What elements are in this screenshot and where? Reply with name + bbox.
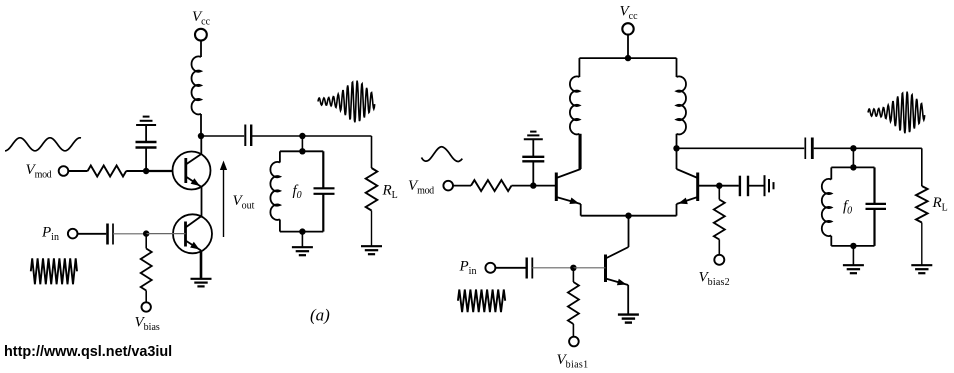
wire collector node to coupling cap C2 [201,135,244,137]
AM output waveform icon (left) [318,81,375,123]
svg-text:Vout: Vout [233,193,255,211]
wire resistor to base node [126,170,146,172]
wire node to tank top [301,136,303,151]
terminal Vcc (left) [195,29,207,41]
wire C2 to tank node [251,135,302,137]
wire tank bottom to ground (right) [852,246,854,265]
wire RL to ground [371,211,373,246]
wire rail node to Q5 collector [628,216,630,247]
terminal Vmod (left) [59,166,69,176]
inverted ground above C1 [136,124,156,126]
node emitter rail [625,213,631,219]
inverted ground above cap (right) [524,138,543,140]
tank inductor (left) [270,162,280,220]
svg-text:Vmod: Vmod [26,162,52,180]
emitter rail wire [581,215,677,217]
wire node to Q2 base [146,233,185,235]
bypass capacitor C1 [145,148,147,172]
wire node to Q5 base [573,267,605,269]
tank right side wire (right) [873,167,875,204]
svg-text:Vcc: Vcc [192,9,211,27]
node base Q1 [143,168,149,174]
transistor Q3 (diff pair left) [555,173,558,202]
resistor to Vbias (left) [145,234,147,249]
wire node to RL corner (right) [853,147,921,149]
resistor RL (left) [366,168,378,211]
svg-text:(a): (a) [310,306,330,325]
wire coil to Q3 collector [578,134,580,169]
svg-text:Vmod: Vmod [408,178,434,196]
bypass capacitor (Q4 base) [739,176,741,197]
transistor Q4 (diff pair right) [696,173,699,202]
node base Q2 [143,230,149,236]
node tank bottom (right) [850,243,856,249]
node output line (left) [299,133,305,139]
svg-text:Pin: Pin [41,225,59,243]
svg-text:RL: RL [382,183,398,201]
svg-text:Vbias: Vbias [135,315,160,333]
tank circuit loop (left) [280,150,323,152]
resistor RL (right) [916,186,928,223]
modulating sine icon (right) [422,147,463,162]
ground (Q2 emitter) [191,278,212,280]
tank right side wire [322,151,324,188]
Vcc top rail wire [579,57,676,59]
wire node to RL corner [302,135,371,137]
svg-text:Vbias1: Vbias1 [557,352,589,370]
svg-text:f0: f0 [293,183,302,201]
wire Vcc to rail [627,34,629,58]
tank capacitor (left) [314,187,335,189]
coupling capacitor (Pin, right) [526,258,528,279]
node collector Q1 [198,133,204,139]
wire inductor to collector node [200,114,202,136]
wire cap to base node Q2 [113,233,146,235]
tank capacitor (right) [866,203,887,205]
wire Q1 emitter to Q2 collector [201,187,203,216]
inductor L3 (left collector load) [570,76,580,134]
coupling capacitor C4 (Pin, left) [106,224,109,245]
wire Q4 base to node [698,185,720,187]
coupling capacitor (output, right) [804,138,806,160]
tank circuit loop (right) [831,166,874,168]
carrier squiggle (Pin, left) [31,258,77,284]
resistor (Vmod series, left) [88,166,127,177]
wire Vmod to resistor (right) [453,185,471,187]
wire cap to tank node (right) [814,147,854,149]
node Vcc rail [625,55,631,61]
ground (tank, right) [843,264,864,266]
svg-text:f0: f0 [843,199,852,217]
wire cap to node (right) [532,267,573,269]
AM output waveform icon (right) [868,92,925,134]
wire resistor to node (right) [512,185,534,187]
terminal Vbias2 [714,255,724,265]
ground (RL, right) [911,264,932,266]
transistor Q5 (current source) [604,255,607,283]
terminal Pin (right) [485,263,495,273]
wire rail to left coil [578,58,580,77]
svg-text:RL: RL [932,195,948,213]
node output tap [673,145,679,151]
wire node to bypass cap (Q4) [719,185,739,187]
node base Q5 [570,265,576,271]
wire Q2 emitter to ground [200,251,203,279]
inductor L1 (collector RFC) [192,56,202,114]
node tank top (left) [299,148,305,154]
ground (RL, left) [361,245,382,247]
wire Vmod to resistor [68,170,87,172]
terminal Pin (left) [68,229,78,239]
node tank bottom (left) [299,228,305,234]
tank inductor (right) [822,179,832,236]
wire Vcc to inductor [200,41,202,57]
inductor L4 (right collector load) [677,76,687,134]
wire rail to right coil [676,58,678,77]
wire tank bottom to ground [301,232,303,247]
sideways ground (Q4 base) [764,175,766,196]
bypass capacitor (right) [532,161,534,185]
ground (tank, left) [292,246,313,248]
wire cap to sideways ground [748,185,764,187]
node base Q4 [716,183,722,189]
ground (Q5 emitter) [618,313,639,315]
transistor Q2 (lower NPN) [173,214,212,253]
wire node to Q3 base [533,185,556,187]
svg-text:Vbias2: Vbias2 [699,270,730,288]
svg-text:http://www.qsl.net/va3iul: http://www.qsl.net/va3iul [4,344,172,360]
resistor to Vbias2 [718,186,720,200]
carrier squiggle (Pin, right) [458,290,505,313]
wire node to Q1 base [146,170,186,172]
node tank top (right) [850,164,856,170]
terminal Vcc (right) [622,23,633,34]
Vout arrow [223,167,225,237]
modulating sine wave icon (left) [5,138,81,151]
wire node to tank top (right) [852,148,854,167]
resistor to Vbias1 [572,268,574,282]
transistor Q1 (upper NPN) [173,152,211,190]
node output line (right) [850,145,856,151]
terminal Vbias (left) [142,302,151,311]
resistor (Vmod series, right) [471,180,512,191]
terminal Vbias1 [569,337,579,347]
wire output tap to coupling cap (right) [677,147,805,149]
coupling capacitor C2 (output, left) [244,125,246,147]
node base Q3 [530,182,536,188]
wire Pin to coupling cap [78,233,107,235]
wire Pin to cap (right) [495,267,525,269]
svg-text:Pin: Pin [459,259,477,277]
wire RL to ground (right) [921,223,923,265]
terminal Vmod (right) [443,181,453,191]
svg-text:Vcc: Vcc [620,4,639,22]
wire Q5 emitter to ground [627,285,629,314]
wire coil to Q4 collector [676,134,678,169]
